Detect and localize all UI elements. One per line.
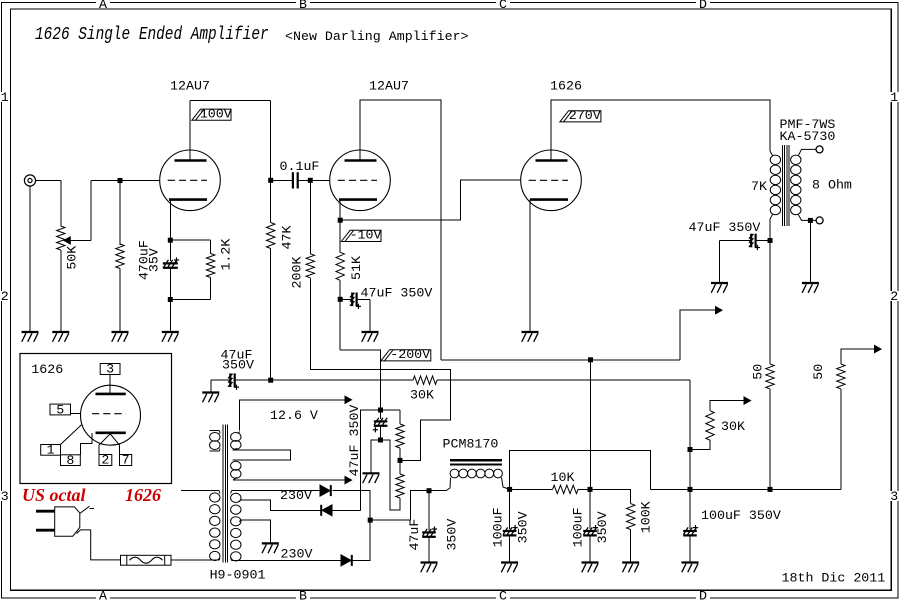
wire V3 plate to OPT [551, 100, 770, 161]
capacitor 47uF 350V bypass [350, 293, 361, 309]
transformer OPT PMF-7WS KA-5730 [781, 145, 783, 226]
node cathode top [168, 238, 173, 243]
wire D3 out [353, 520, 371, 560]
wire divider top [381, 409, 401, 411]
wire V2 cathode [339, 200, 341, 221]
node V2 cathode [338, 218, 343, 223]
svg-text:12AU7: 12AU7 [170, 79, 210, 94]
svg-text:3: 3 [890, 489, 898, 504]
svg-text:1626: 1626 [125, 485, 161, 505]
wire bypass cap ground [357, 298, 370, 300]
wire divider loop [381, 440, 401, 510]
svg-text:US octal: US octal [22, 485, 86, 505]
svg-text:2: 2 [101, 453, 109, 468]
capacitor 47uF 350V decoupling [749, 234, 760, 250]
socket cathode leads [61, 425, 82, 445]
socket pin2 box [99, 455, 112, 466]
terminal speaker + [816, 146, 823, 153]
wire OPT primary top [770, 151, 773, 156]
wire 1.2K branch top [170, 239, 210, 241]
wire filter1 ground [428, 537, 430, 563]
svg-text:1: 1 [1, 90, 9, 105]
node bias cap bottom [378, 438, 383, 443]
wire choke node cap1 down [509, 489, 511, 528]
wire heater top lead [240, 400, 345, 431]
svg-text:100uF: 100uF [490, 507, 505, 547]
svg-text:30K: 30K [410, 387, 434, 402]
node 30K tap [688, 447, 693, 452]
svg-text:270V: 270V [569, 108, 601, 123]
svg-text:100K: 100K [638, 501, 653, 533]
wire rail feed down [590, 360, 592, 490]
ground 100K [622, 563, 639, 573]
wire OPT secondary top to terminal [799, 149, 817, 155]
wire secondary to ground [809, 220, 811, 283]
svg-text:2: 2 [1, 289, 9, 304]
ground jack [22, 332, 39, 342]
svg-text:7: 7 [122, 453, 130, 468]
svg-text:B: B [299, 589, 307, 600]
wire jack ground lead [29, 186, 31, 332]
arrow heater 12.6V top [345, 396, 352, 403]
ground bypass cap [362, 332, 379, 342]
wire B+ rail V2 [441, 359, 680, 361]
wire 30K bleeder arrow [710, 401, 744, 411]
pot wiper arrow [64, 237, 71, 244]
svg-text:D: D [699, 0, 707, 12]
svg-text:2: 2 [890, 289, 898, 304]
wire -200V feed [340, 350, 380, 410]
fuse F1 [121, 555, 172, 565]
svg-text:100uF: 100uF [570, 507, 585, 547]
node divider tap [398, 458, 403, 463]
resistor divider lower [396, 474, 404, 498]
wire D1 out [333, 491, 371, 520]
svg-text:350V: 350V [222, 357, 254, 372]
wire 50B arrow [841, 349, 875, 364]
wire 230V upper lead [232, 490, 321, 492]
svg-text:KA-5730: KA-5730 [780, 129, 836, 144]
ground filter2 [582, 563, 599, 573]
wire OPT primary bottom [770, 215, 773, 241]
capacitor 100uF 350V filter3 [683, 525, 698, 535]
svg-text:B: B [299, 0, 307, 12]
PT secondary 230V lower [231, 528, 241, 537]
diode D1 [320, 485, 331, 496]
capacitor 100uF 350V filter2 [583, 525, 598, 535]
wire centre tap ground [241, 520, 271, 544]
svg-text:C: C [499, 0, 507, 12]
svg-text:1: 1 [47, 443, 55, 458]
wire divider mid [399, 448, 401, 460]
node V2 grid [308, 178, 313, 183]
PT primary aux winding [210, 430, 220, 432]
wire V3 cathode [529, 200, 531, 332]
arrow B+ out 1 [716, 307, 723, 314]
wire 10K out [578, 488, 590, 490]
svg-text:1.2K: 1.2K [219, 239, 234, 271]
resistor 200K [306, 254, 314, 278]
wire to ground [119, 269, 121, 333]
node OPT B+ [768, 238, 773, 243]
PT heater winding 12.6V [238, 432, 240, 434]
svg-text:47uF 350V: 47uF 350V [361, 286, 433, 301]
capacitor 47uF 350V rail [228, 373, 239, 389]
capacitor 470uF 35V [163, 257, 179, 267]
node 50A rail [768, 487, 773, 492]
wire choke node to 10K [510, 488, 553, 490]
svg-text:A: A [99, 589, 107, 600]
wire V1 cathode [169, 200, 171, 241]
wire 50A bottom [769, 389, 771, 489]
ground PT centre tap [262, 543, 279, 553]
svg-text:50K: 50K [64, 246, 79, 270]
wire 230V bottom lead [232, 559, 342, 561]
wire 51K top [339, 220, 341, 252]
svg-text:47uF 350V: 47uF 350V [689, 220, 761, 235]
svg-text:C: C [499, 589, 507, 600]
node cathode bottom [168, 297, 173, 302]
socket pin3 box [100, 364, 120, 375]
wire choke in [429, 490, 446, 492]
wire cap to ground [169, 268, 171, 332]
ground decoupling [711, 283, 728, 293]
AC plug [36, 507, 80, 536]
resistor 30K dropper [413, 376, 437, 384]
wire 47uF rail cap [210, 380, 212, 392]
flag 100V [192, 107, 232, 122]
svg-text:50: 50 [750, 364, 765, 380]
svg-text:H9-0901: H9-0901 [210, 568, 266, 583]
PT secondary 230V upper [231, 493, 241, 502]
wire bias bottom to ground [371, 440, 381, 473]
wire OPT secondary bottom [799, 215, 817, 221]
capacitor 100uF 350V filter choke [503, 525, 518, 535]
svg-text:51K: 51K [349, 256, 364, 280]
svg-text:-200V: -200V [390, 347, 430, 362]
svg-text:100V: 100V [200, 107, 232, 122]
resistor 1.2K [206, 254, 214, 278]
wire 30K rail [271, 379, 413, 381]
wire B+ filtered rail [650, 488, 841, 490]
terminal speaker - [816, 217, 823, 224]
wire bias cap bottom [380, 426, 382, 440]
resistor divider upper [396, 424, 404, 448]
node first filter cap [427, 488, 432, 493]
wire 47K feed [270, 180, 272, 222]
wire filter cap 47uF [428, 491, 430, 531]
svg-text:350V: 350V [444, 519, 459, 551]
arrow bias out [744, 397, 751, 404]
node rectifier output [368, 518, 373, 523]
svg-text:18th Dic 2011: 18th Dic 2011 [782, 571, 886, 586]
triode V2 12AU7 [330, 150, 391, 211]
node choke output [507, 487, 512, 492]
wire 100K ground [630, 530, 632, 563]
wire rectifier to filter [370, 491, 428, 520]
resistor 47K [267, 223, 275, 249]
socket heater legs [99, 434, 120, 455]
wire B+ to decoupling cap [756, 240, 769, 242]
ground pot [52, 332, 69, 342]
svg-text:230V: 230V [280, 488, 312, 503]
node 47K bias rail [268, 378, 273, 383]
socket tube diagram [81, 385, 141, 445]
svg-text:12AU7: 12AU7 [369, 79, 409, 94]
wire V1 plate to node [189, 101, 191, 161]
flag -10V [341, 228, 381, 243]
node rail to 10K feed [588, 357, 593, 362]
wire cap to V2 grid [299, 179, 311, 181]
svg-text:350V: 350V [516, 511, 531, 543]
svg-text:3: 3 [1, 489, 9, 504]
flag -200V [381, 347, 431, 362]
wire jack to pot [36, 180, 61, 182]
wire wiper to grid net [70, 239, 91, 241]
svg-text:0.1uF: 0.1uF [280, 159, 320, 174]
svg-text:10K: 10K [551, 470, 575, 485]
ground bias supply [363, 473, 380, 483]
wire to bypass cap [340, 298, 351, 300]
node 10K out [588, 487, 593, 492]
wire filter3 ground [689, 535, 691, 562]
wire x690 down [689, 450, 691, 529]
capacitor 47uF 350V filter1 [422, 526, 437, 536]
capacitor 0.1uF [271, 179, 292, 181]
wire filter cap2 feed [589, 489, 591, 528]
node -200V line [378, 408, 383, 413]
wire grid leak resistor [119, 181, 121, 246]
wire diode2 to -200V [360, 410, 380, 511]
svg-text:230V: 230V [281, 547, 313, 562]
socket pin8 box [61, 455, 81, 466]
svg-text:1626: 1626 [550, 79, 582, 94]
svg-text:5: 5 [56, 402, 64, 417]
resistor 10K [553, 485, 579, 493]
resistor 51K [336, 252, 344, 280]
ground speaker return [802, 283, 819, 293]
wire cathode to V3 grid [340, 180, 520, 220]
svg-text:PCM8170: PCM8170 [443, 437, 499, 452]
svg-text:8 Ohm: 8 Ohm [812, 178, 852, 193]
socket pin1 box [41, 445, 61, 456]
wire choke node up [510, 451, 651, 490]
wire pot bottom to ground [60, 250, 62, 332]
svg-text:D: D [699, 589, 707, 600]
svg-text:3: 3 [106, 362, 114, 377]
resistor 30K bleeder [706, 411, 714, 441]
socket box [20, 354, 172, 484]
wire filter2 ground [589, 535, 591, 562]
wire heater centre jumper [233, 450, 291, 460]
node grid V1 [118, 178, 123, 183]
resistor 100K [627, 504, 635, 530]
svg-text:100uF 350V: 100uF 350V [701, 508, 781, 523]
svg-text:1: 1 [890, 90, 898, 105]
wire 200K top [309, 180, 311, 254]
wire 30K tap resistor [690, 440, 710, 449]
svg-text:<New Darling Amplifier>: <New Darling Amplifier> [285, 29, 469, 44]
resistor grid leak [116, 244, 124, 268]
wire decoupling cap to ground [720, 240, 751, 242]
wire rail segment 650 to 690 [650, 488, 690, 490]
wire divider tap stub [399, 460, 401, 474]
wire D2 out [332, 509, 360, 511]
svg-text:7K: 7K [751, 179, 767, 194]
wire 230V second lead [241, 500, 322, 511]
svg-text:35V: 35V [147, 248, 162, 272]
triode V3 1626 [521, 150, 582, 211]
svg-text:12.6 V: 12.6 V [270, 408, 318, 423]
resistor 50 ohm B [837, 364, 845, 389]
wire -200V cap top [380, 410, 382, 419]
input jack J1 [24, 175, 35, 186]
svg-text:200K: 200K [290, 257, 305, 289]
svg-text:8: 8 [66, 453, 74, 468]
wire rail arrow branch [680, 310, 716, 360]
triode V1 12AU7 [160, 150, 221, 211]
node V1 plate coupling [268, 178, 273, 183]
diode D3 [341, 555, 352, 566]
svg-text:350V: 350V [595, 511, 610, 543]
wire fuse to PT [171, 559, 181, 561]
transformer PT H9-0901 [222, 425, 224, 563]
wire V2 plate [360, 100, 441, 360]
svg-text:47K: 47K [279, 226, 294, 250]
wire rail cap to node [235, 379, 271, 381]
wire rail down x690 [689, 380, 691, 449]
capacitor 47uF 350V bias [373, 418, 388, 433]
svg-text:30K: 30K [721, 419, 745, 434]
ground V1 cathode [162, 332, 179, 342]
wire 50B bottom [840, 389, 842, 489]
wire heater bottom lead [233, 479, 345, 481]
ground filter1 [421, 563, 438, 573]
wire 51K bottom [339, 280, 341, 350]
wire filter choke cap ground [509, 535, 511, 562]
ground filter3 [682, 563, 699, 573]
svg-text:1626: 1626 [31, 362, 63, 377]
wire plug to fuse [77, 530, 121, 560]
node secondary ground [808, 218, 813, 223]
arrow heater 12.6V bottom [345, 477, 352, 484]
ground V3 cathode [522, 332, 539, 342]
svg-text:1626 Single Ended Amplifier: 1626 Single Ended Amplifier [35, 23, 269, 44]
diode D2 [321, 505, 332, 516]
wire 200K bottom path [310, 278, 450, 461]
wire 1.2K branch bottom [210, 278, 212, 300]
ground grid leak [112, 332, 129, 342]
node filter cap 3 [688, 487, 693, 492]
resistor 50 ohm A [766, 364, 774, 389]
wire 47K bottom [270, 249, 272, 381]
potentiometer 50K [57, 226, 65, 250]
node 51K bypass [338, 297, 343, 302]
svg-text:A: A [99, 0, 107, 12]
svg-text:50: 50 [811, 364, 826, 380]
svg-text:47uF 350V: 47uF 350V [347, 405, 362, 477]
wire to 100K [590, 489, 631, 503]
wire 30K rail right [437, 379, 690, 381]
wire 47uF node feed [769, 241, 771, 365]
socket pin7 box [120, 455, 132, 466]
ground choke cap [501, 563, 518, 573]
wire choke out [502, 478, 510, 490]
arrow feedback out [875, 346, 882, 353]
flag 270V [560, 108, 601, 123]
wire cathode to cap [169, 240, 171, 261]
ground heater null [202, 393, 219, 403]
svg-text:-10V: -10V [350, 228, 382, 243]
socket pin5 box [50, 404, 71, 415]
power switch [80, 506, 90, 513]
PT primary main winding [181, 489, 219, 491]
svg-text:47uF: 47uF [407, 519, 422, 551]
